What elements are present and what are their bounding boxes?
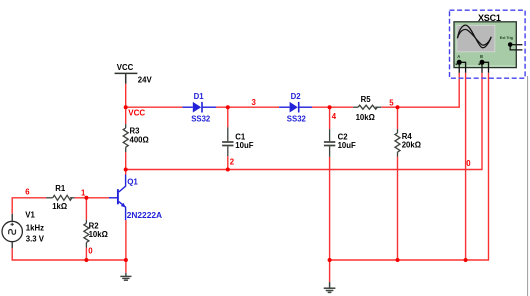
svg-text:5: 5 (389, 99, 394, 108)
svg-text:B: B (480, 54, 483, 59)
node 1 junction (84, 196, 88, 200)
page border line (527, 76, 529, 296)
node 5 junction (396, 105, 400, 109)
svg-text:10uF: 10uF (235, 141, 253, 150)
svg-text:2N2222A: 2N2222A (127, 210, 162, 220)
svg-text:VCC: VCC (128, 108, 145, 117)
resistor R1 (46, 195, 74, 200)
svg-text:C1: C1 (235, 132, 246, 141)
svg-text:Q1: Q1 (127, 178, 138, 187)
svg-text:1kΩ: 1kΩ (52, 202, 67, 211)
scope waveform inner (457, 29, 491, 45)
svg-text:1: 1 (81, 188, 86, 197)
svg-text:24V: 24V (138, 76, 153, 85)
wire scope A- down (465, 73, 467, 260)
wire net VCC to D1 (126, 106, 183, 108)
svg-text:R5: R5 (361, 95, 372, 104)
scope pin B- hook (482, 62, 489, 73)
svg-text:A: A (457, 54, 460, 59)
node 0 junction emitter (124, 258, 128, 262)
svg-text:D2: D2 (291, 92, 302, 101)
svg-text:0: 0 (466, 159, 471, 168)
node 0 junction A- (464, 258, 468, 262)
wire R4 top (397, 107, 399, 129)
diode D1 (182, 102, 216, 113)
svg-text:C2: C2 (338, 132, 349, 141)
wire V1 bottom loop (12, 248, 126, 260)
wire R1 to base (75, 197, 109, 199)
node VCC junction (124, 105, 128, 109)
wire net 4 D2 to R5 (312, 106, 353, 108)
svg-text:400Ω: 400Ω (130, 136, 149, 145)
resistor R2 (84, 220, 89, 248)
resistor R3 (123, 124, 128, 152)
wire net 3 D1 to D2 (216, 106, 279, 108)
wire VCC stub down (125, 84, 127, 108)
wire R2 top (85, 198, 87, 220)
scope pin A- hook (459, 62, 465, 73)
wire R2 bottom (85, 248, 87, 261)
svg-text:VCC: VCC (117, 63, 134, 72)
node 0 junction R4 (396, 258, 400, 262)
resistor R4 (395, 129, 400, 157)
node 3 junction (226, 105, 230, 109)
wire V1 top loop (12, 198, 46, 214)
node 0 junction R2 (84, 258, 88, 262)
transistor Q1 (109, 175, 126, 221)
svg-text:6: 6 (25, 187, 30, 196)
svg-text:R4: R4 (402, 132, 413, 141)
svg-text:4: 4 (332, 112, 337, 121)
svg-text:20kΩ: 20kΩ (402, 141, 421, 150)
wire C1 bottom (227, 156, 229, 169)
node 0 junction C2 (328, 258, 332, 262)
wire C1 top (227, 107, 229, 127)
svg-text:3: 3 (252, 98, 257, 107)
ground emitter (120, 273, 131, 280)
wire C2 bottom to ground bus (329, 157, 331, 260)
node 4 junction (328, 105, 332, 109)
diode D2 (279, 102, 312, 113)
source V1 (2, 214, 22, 249)
resistor R5 (353, 105, 381, 109)
svg-text:R3: R3 (130, 126, 141, 135)
oscilloscope body (454, 22, 516, 68)
svg-text:3.3 V: 3.3 V (26, 234, 45, 243)
svg-text:10kΩ: 10kΩ (89, 230, 108, 239)
svg-text:1kHz: 1kHz (26, 224, 44, 233)
svg-text:SS32: SS32 (287, 114, 307, 123)
wire VCC junction to R3 top (125, 107, 127, 124)
wire R3 bottom to collector node (125, 152, 127, 174)
oscilloscope screen (457, 25, 495, 52)
svg-text:D1: D1 (194, 92, 205, 101)
wire scope B- down (330, 73, 489, 260)
svg-text:10kΩ: 10kΩ (356, 113, 375, 122)
wire R4 bottom to ground bus (397, 157, 399, 260)
svg-text:2: 2 (230, 157, 235, 166)
wire C2 top (329, 107, 331, 129)
node 2 junction left (124, 168, 128, 172)
svg-text:0: 0 (88, 247, 93, 256)
scope waveform outer (457, 25, 491, 48)
capacitor C2 (324, 129, 335, 157)
svg-text:V1: V1 (25, 210, 35, 219)
svg-text:SS32: SS32 (191, 114, 211, 123)
wire net 5 R5 to scope A+ (381, 73, 459, 107)
wire net 2 to scope B+ (126, 73, 482, 170)
wire emitter down (125, 220, 127, 273)
oscilloscope XSC1 dashed select box (450, 10, 526, 78)
svg-text:10uF: 10uF (338, 141, 356, 150)
ground mid bus (324, 282, 336, 292)
wire ground stub mid (329, 260, 331, 282)
svg-text:Ext Trig: Ext Trig (500, 36, 513, 40)
scope terminal A dot (457, 60, 462, 65)
node 2 junction C1 (226, 168, 230, 172)
scope ext trig dot (508, 42, 513, 47)
scope ext trig pins (512, 44, 522, 46)
svg-text:R1: R1 (55, 184, 66, 193)
power VCC symbol (115, 73, 138, 83)
scope pin A+ (458, 64, 460, 73)
capacitor C1 (222, 127, 233, 156)
scope pin B+ (481, 64, 483, 73)
scope terminal B dot (480, 60, 485, 65)
